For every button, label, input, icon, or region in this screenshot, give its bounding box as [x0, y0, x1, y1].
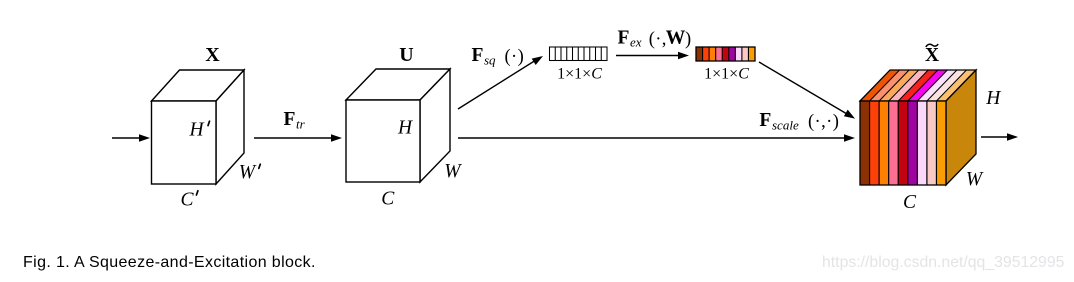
- cube X~ (scaled output): right face: [946, 70, 976, 185]
- svg-text:C: C: [381, 189, 395, 210]
- svg-text:1×1×C: 1×1×C: [704, 66, 749, 83]
- svg-text:Fex(·,W): Fex(·,W): [618, 27, 692, 49]
- arrow F_sq (squeeze): [458, 56, 543, 109]
- cube X~ (scaled output): top face stripes: [860, 70, 976, 101]
- svg-text:1×1×C: 1×1×C: [557, 66, 602, 83]
- svg-text:X: X: [205, 44, 220, 66]
- arrow F_tr: [254, 134, 342, 142]
- svg-text:W: W: [239, 162, 257, 183]
- output arrow: [981, 133, 1018, 141]
- svg-text:C: C: [181, 189, 195, 210]
- svg-text:U: U: [399, 44, 413, 66]
- cube X~ (scaled output): front face stripes: [860, 101, 946, 185]
- squeeze vector 1×1×C (white bar): [550, 47, 608, 61]
- label H': [189, 119, 210, 140]
- svg-text:C: C: [903, 192, 917, 213]
- arrow F_ex (excitation): [616, 52, 689, 60]
- svg-text:https://blog.csdn.net/qq_39512: https://blog.csdn.net/qq_39512995: [822, 254, 1065, 271]
- svg-text:H: H: [985, 88, 1001, 109]
- svg-text:H: H: [397, 118, 413, 139]
- cube U: [346, 69, 450, 182]
- svg-text:X: X: [925, 45, 939, 66]
- svg-text:W: W: [966, 169, 984, 190]
- svg-text:H: H: [189, 119, 205, 140]
- svg-text:Fig. 1. A Squeeze-and-Excitati: Fig. 1. A Squeeze-and-Excitation block.: [23, 254, 316, 271]
- svg-text:W: W: [444, 161, 462, 182]
- label W': [239, 162, 260, 183]
- arrow from excitation vector to scaled cube: [759, 62, 855, 119]
- label C': [181, 189, 198, 210]
- cube X (input feature map): [152, 70, 245, 184]
- input arrow: [112, 134, 150, 142]
- arrow F_scale: [458, 134, 855, 142]
- excitation vector 1×1×C (colored bar): [696, 47, 755, 61]
